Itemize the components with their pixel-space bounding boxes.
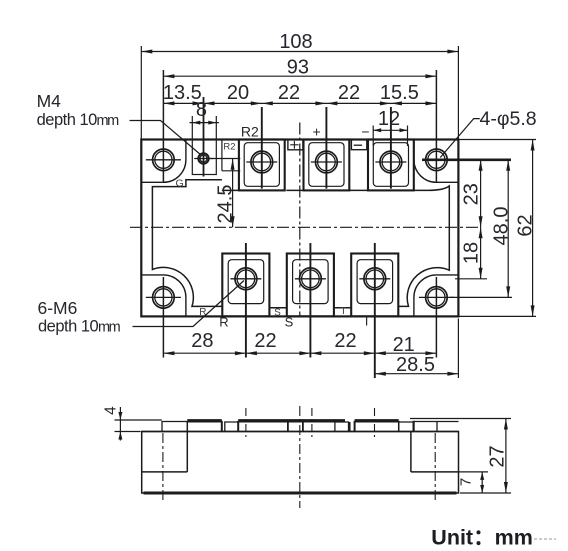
svg-text:mm: mm (97, 113, 120, 129)
horizontal centerline (130, 226, 481, 228)
terminal block plus (top row) (304, 140, 350, 191)
gate pad edge (221, 140, 223, 171)
heavy datum line from top-right hole (422, 158, 511, 161)
terminal T circles (364, 268, 386, 290)
terminal plus circles (316, 151, 338, 173)
terminal block S (bottom row) (287, 254, 334, 317)
side view rim line (142, 431, 459, 433)
svg-text:+: + (313, 124, 321, 140)
svg-text:8: 8 (196, 99, 207, 121)
recess boundary right (398, 186, 449, 306)
svg-text:R: R (219, 315, 228, 330)
extension line minus column (390, 107, 392, 189)
extension line module left edge (140, 46, 142, 140)
svg-text:6-M6: 6-M6 (38, 298, 78, 318)
extension lines 8-dim (191, 116, 193, 140)
hole M4 circles (198, 153, 208, 163)
M4 crosshair (194, 158, 213, 160)
gate terminal block M4 (192, 140, 216, 175)
mounting hole top-left (phi5.8) (153, 149, 175, 171)
svg-text:28: 28 (191, 330, 213, 352)
notch with + mark (288, 140, 303, 150)
recess boundary left with G-pad step (152, 180, 222, 307)
terminal block R2 (top row) (239, 140, 285, 191)
extension line S column bottom (309, 243, 311, 358)
svg-text:27: 27 (487, 445, 509, 467)
extension line module right edge top (457, 46, 459, 140)
corner pad bottom-right (414, 275, 459, 317)
vertical centerline (299, 123, 301, 318)
extension line right edge bottom (457, 319, 459, 379)
side view body outline (142, 432, 459, 494)
svg-text:22: 22 (278, 82, 300, 104)
svg-text:22: 22 (334, 330, 356, 352)
extension line 18 dim bottom (455, 278, 487, 280)
extension line T column bottom (374, 243, 376, 378)
svg-text:22: 22 (254, 330, 276, 352)
svg-text:20: 20 (227, 82, 249, 104)
dim 108 top (141, 51, 458, 53)
side view left boss (142, 471, 188, 473)
extension line R column bottom (245, 243, 247, 358)
svg-text:Unit：mm: Unit：mm (431, 525, 533, 549)
corner pad bottom-left (141, 275, 186, 317)
side view gate pad bar (187, 419, 222, 422)
dim 8 (gate block width) (190, 122, 219, 124)
side view right boss (411, 471, 459, 473)
mounting hole bottom-left (phi5.8) (153, 287, 175, 309)
svg-text:108: 108 (279, 31, 312, 53)
terminal R crosshair (230, 278, 261, 280)
dim 48.0 right side (507, 160, 509, 298)
svg-text:18: 18 (461, 242, 483, 264)
dim row bottom 28 / 22 / 22 / 21 (163, 352, 436, 354)
side view T pad bar (355, 419, 399, 422)
dim 23 right side (480, 160, 482, 228)
link line M4 to R2 block (211, 158, 241, 160)
side view centerline T (374, 408, 376, 438)
leader 6-M6 (133, 281, 245, 327)
svg-text:S: S (274, 307, 281, 318)
side view baseplate bottom (144, 492, 457, 495)
terminal plus crosshair (311, 161, 342, 163)
svg-text:R2: R2 (241, 124, 259, 140)
svg-text:R2: R2 (223, 141, 235, 152)
terminal R circles (235, 268, 257, 290)
svg-text:G: G (176, 177, 184, 189)
mounting hole top-right (phi5.8) (426, 149, 448, 171)
terminal minus circles (380, 151, 402, 173)
dim 18 right side (480, 227, 482, 278)
side view notch box 2 (335, 422, 349, 432)
dim 24.5 (232, 159, 234, 228)
extension line left hole column (162, 70, 164, 183)
terminal T crosshair (359, 278, 390, 280)
extension line right hole bottom column (435, 277, 437, 358)
svg-text:mm: mm (98, 319, 121, 335)
recess line between bottom blocks R-S (270, 307, 287, 309)
corner pad top-left (141, 140, 186, 183)
leader M4 (130, 121, 202, 156)
dim 7 side view (459, 471, 489, 473)
terminal block T (bottom row) (351, 254, 398, 317)
extension line plus column (325, 107, 327, 189)
dotted line after unit (534, 538, 556, 540)
side view notch verticals R2-plus (287, 422, 289, 432)
notch with - mark (351, 140, 366, 150)
dim 62 right side (532, 140, 534, 317)
extension line bottom edge to 62 dim (458, 315, 536, 317)
extension lines 12-dim (372, 126, 374, 147)
side view centerline right hole (434, 433, 436, 503)
svg-text:15.5: 15.5 (380, 82, 419, 104)
extension line 48 dim bottom (450, 296, 512, 298)
side view right pad box (414, 422, 437, 432)
recess line between top blocks (222, 189, 240, 191)
dim 4 side view (115, 419, 162, 421)
svg-text:48.0: 48.0 (490, 207, 512, 246)
terminal R2 circles (251, 151, 273, 173)
side view notch box 1 (225, 422, 238, 432)
mounting hole bottom-right (phi5.8) (426, 287, 448, 309)
extension line M4 column (203, 97, 205, 177)
module outline (top view) 108x62 (141, 140, 458, 317)
terminal block minus (top row) (368, 140, 414, 191)
terminal S crosshair (295, 278, 326, 280)
recess line between bottom blocks S-T (334, 307, 351, 309)
side view centerline left hole (162, 433, 164, 503)
dim 27 side view (410, 418, 511, 420)
svg-text:24.5: 24.5 (214, 185, 236, 224)
svg-text:21: 21 (393, 334, 415, 356)
side view centerline S (311, 408, 313, 438)
side view centerline R (245, 408, 247, 438)
svg-text:28.5: 28.5 (396, 354, 435, 376)
side view left pad box (162, 422, 187, 432)
svg-text:S: S (285, 315, 294, 330)
svg-text:93: 93 (287, 57, 309, 79)
svg-text:depth 10: depth 10 (38, 317, 99, 335)
corner pad top-right (414, 140, 459, 183)
svg-text:12: 12 (378, 108, 400, 130)
svg-text:T: T (363, 314, 371, 329)
svg-text:7: 7 (457, 478, 474, 486)
side view notch box 3 (399, 422, 414, 432)
extension line right hole column (435, 70, 437, 183)
side view centerline module center (299, 406, 301, 508)
dim row 13.5 / 20 / 22 / 22 / 15.5 (163, 102, 436, 104)
svg-text:22: 22 (338, 82, 360, 104)
svg-text:4: 4 (102, 406, 119, 415)
svg-text:62: 62 (514, 214, 536, 236)
svg-text:23: 23 (461, 183, 483, 205)
extension line left hole bottom column (162, 277, 164, 358)
terminal minus crosshair (375, 161, 406, 163)
terminal block R (bottom row) (222, 254, 269, 317)
svg-text:R: R (199, 307, 206, 318)
extension line R2 column (261, 107, 263, 189)
svg-text:depth 10: depth 10 (37, 111, 98, 129)
svg-text:M4: M4 (37, 91, 62, 111)
dim 93 (163, 75, 436, 77)
side view center pad bar (238, 419, 345, 422)
extension line top edge to 62 dim (458, 139, 536, 141)
svg-text:−: − (361, 124, 369, 140)
terminal R2 crosshair (246, 161, 277, 163)
dim 12 (terminal width) (373, 129, 407, 131)
svg-text:T: T (340, 306, 346, 317)
leader 4-phi5.8 (440, 119, 480, 158)
svg-text:4-φ5.8: 4-φ5.8 (480, 108, 537, 130)
dim 28.5 bottom (375, 373, 459, 375)
terminal S circles (300, 268, 322, 290)
